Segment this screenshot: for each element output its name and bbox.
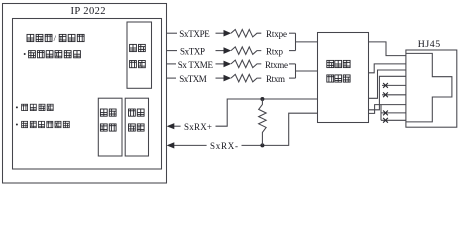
svg-text:/: /	[54, 33, 57, 43]
text data decode	[100, 109, 116, 131]
bracket rows 3-4	[295, 64, 297, 78]
text ethernet transformer	[327, 60, 350, 82]
wire stub row4	[167, 77, 177, 79]
resistor Rrx termination vertical	[259, 99, 267, 145]
wire to bracket row3	[289, 63, 296, 65]
resistor Rtxp	[231, 47, 261, 55]
svg-text:SxRX-: SxRX-	[210, 141, 238, 151]
wire arrow line row1	[216, 32, 225, 34]
arrowhead rx+	[167, 123, 175, 129]
wire terminator bus upper	[369, 76, 406, 110]
arrowhead row4	[224, 75, 232, 82]
RJ45 jack profile shape	[406, 53, 452, 122]
nc mark pin4	[383, 83, 388, 88]
wire stub row3	[167, 63, 177, 65]
text manchester encode	[24, 51, 81, 58]
wire terminator bus lower	[380, 105, 382, 121]
text serializer/deserializer	[27, 33, 84, 43]
text manchester decode	[16, 121, 69, 127]
wire pair 1-2 to transformer	[296, 41, 318, 43]
wire rx- to transformer	[242, 113, 318, 145]
resistor Rtxm	[231, 74, 261, 82]
wire to bracket row2	[289, 50, 296, 52]
ethernet transformer box	[318, 33, 369, 123]
bracket rows 1-2	[295, 33, 297, 50]
block: data decode box	[98, 98, 122, 156]
wire to bracket row4	[289, 77, 296, 79]
block: data encode box	[127, 22, 152, 88]
text noise suppress	[129, 109, 145, 131]
wire pin4 to RJ45 pin6	[369, 105, 406, 114]
wire nc pin5	[382, 94, 406, 96]
resistor Rtxpe	[231, 29, 261, 37]
arrowhead rx-	[167, 142, 175, 148]
wire arrow line row2	[216, 50, 225, 52]
wire pair 3-4 to transformer	[296, 70, 318, 72]
svg-text:SxRX+: SxRX+	[184, 122, 212, 132]
RJ45 connector box	[406, 50, 457, 127]
wire rx+ arrow line	[174, 125, 181, 127]
svg-text:Rtxme: Rtxme	[265, 60, 288, 70]
IP2022 outer box	[3, 4, 167, 184]
wire arrow line row3	[216, 63, 225, 65]
svg-text:SxTXM: SxTXM	[179, 74, 207, 84]
svg-text:Rtxpe: Rtxpe	[266, 29, 287, 39]
node junction rx+	[260, 97, 264, 101]
node junction rx-	[260, 143, 264, 147]
wire pin2 to RJ45 pin2	[369, 64, 406, 73]
nc mark pin7	[383, 111, 388, 116]
wire rx- arrow line	[174, 144, 207, 146]
wire pin1 to RJ45 pin1	[369, 42, 406, 56]
wire to bracket row1	[289, 32, 296, 34]
arrowhead row3	[224, 61, 232, 68]
resistor Rtxme	[231, 60, 261, 68]
wire pin3 to RJ45 pin3	[369, 70, 406, 98]
svg-text:Rtxp: Rtxp	[266, 47, 284, 57]
nc mark pin5	[383, 92, 388, 97]
wire arrow line row4	[216, 77, 225, 79]
wire stub row2	[167, 50, 178, 52]
arrowhead row1	[224, 30, 232, 37]
svg-text:Sx TXME: Sx TXME	[178, 60, 214, 70]
wire stub row1	[167, 32, 178, 34]
arrowhead row2	[224, 47, 232, 54]
svg-text:SxTXPE: SxTXPE	[179, 29, 210, 39]
wire nc pin7	[381, 112, 406, 114]
text clock recovery	[16, 104, 53, 110]
svg-text:IP 2022: IP 2022	[71, 6, 106, 17]
wire nc pin8	[381, 119, 406, 121]
nc mark pin8	[383, 118, 388, 123]
svg-text:HJ45: HJ45	[418, 39, 440, 50]
block: noise suppress box	[125, 98, 148, 156]
wire rx+ to transformer	[216, 99, 318, 126]
wire nc pin4	[382, 84, 406, 86]
IP2022 inner serdes box	[13, 19, 162, 170]
svg-text:Rtxm: Rtxm	[266, 74, 285, 84]
svg-text:SxTXP: SxTXP	[180, 47, 205, 57]
text data encode	[130, 44, 146, 67]
